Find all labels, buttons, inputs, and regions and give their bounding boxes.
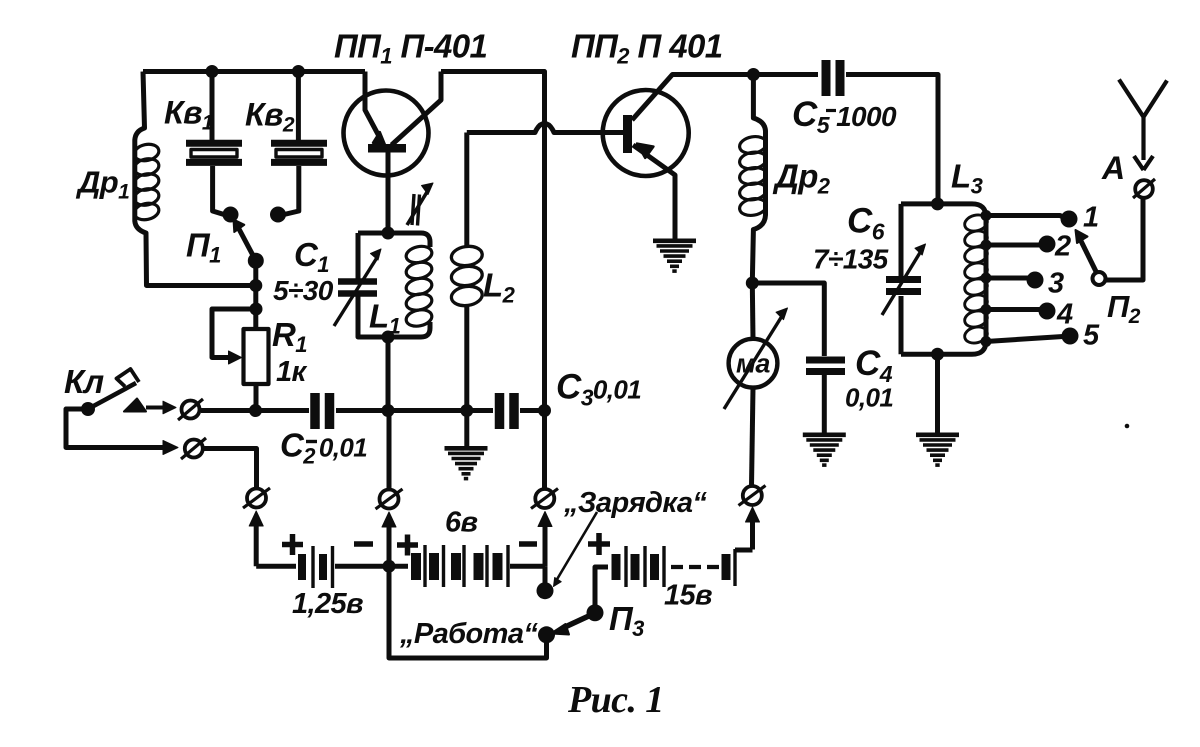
wire Kv2 bottom lead [284,166,299,215]
wire top-right bus [441,72,545,411]
battery 1.25v wire left [256,564,296,569]
capacitor C4 plates [806,357,845,364]
node L3 tap3 [981,273,992,284]
battery 1.25v wire right [335,564,389,569]
upper arrow to jack [146,406,165,410]
svg-text:2: 2 [1054,231,1071,263]
node P2 contact 1 [1061,211,1078,228]
label C5 macron dash [826,109,836,112]
node P1 contact Kv1 [223,207,239,223]
ground under C4 [803,432,846,437]
node C5 tank junction [931,197,944,210]
lower jack terminal [185,440,203,458]
node L3 tap5 [981,336,992,347]
svg-text:Др1: Др1 [75,165,129,204]
terminal o2 [380,490,399,509]
arrow up to o3 [543,520,548,567]
L3 tap 2 wire [986,243,1040,248]
svg-text:С1: С1 [294,236,329,277]
svg-text:Др2: Др2 [772,158,831,199]
node P1 pivot [248,253,264,269]
tank L3 outline top [901,204,986,217]
node tank top junction [382,227,395,240]
svg-text:3: 3 [1048,268,1064,300]
L1 core trimmer symbol [412,194,420,226]
wire o2 up to bus [387,411,392,490]
svg-text:ма: ма [736,349,770,379]
tank L3 outline bottom [901,341,986,354]
svg-text:С20,01: С20,01 [280,427,367,469]
battery 1.25v plus sign [282,534,303,555]
terminal o4 [743,486,762,505]
capacitor C6 plates [886,276,921,283]
svg-text:5÷30: 5÷30 [273,275,334,306]
node tank bottom junction [382,331,395,344]
arrow into lower jack [163,441,178,455]
battery 6v wire right [510,564,545,569]
node P2 contact 5 [1062,328,1079,345]
transistor PP1 circle [344,91,429,176]
PP2 emitter lead [633,145,675,239]
L3 tap 1 wire [986,216,1065,219]
arrow up to o4 [750,515,755,550]
node P2 contact 4 [1039,303,1056,320]
resistor R1 body [244,329,269,384]
arrow up to o2 [387,520,392,566]
battery 6v plates [411,553,421,580]
tank L3 left side [899,204,904,354]
key Kl lower pole wire [66,409,168,448]
crystal Kv2 [271,140,327,147]
svg-text:1,25в: 1,25в [292,588,363,620]
bus between C2 and C3 [336,408,493,413]
svg-text:15в: 15в [664,580,712,612]
svg-text:6в: 6в [445,507,478,539]
inductor Dr1 coil [133,142,161,163]
antenna terminal circle [1135,180,1153,198]
PP2 base bar [623,115,632,153]
node R1 bus junction [249,404,262,417]
arrow up to o1 [254,519,259,566]
PP1 base bar [368,144,406,153]
svg-text:7÷135: 7÷135 [813,244,889,275]
node work contact [538,626,555,643]
svg-text:Кв1: Кв1 [164,95,213,135]
battery 15v plus sign [588,533,610,555]
wire PP2 base line with hop [467,124,623,133]
meter mA circle [729,339,778,388]
tank L1 outline [358,233,430,247]
wire o3 shaft to charge contact [543,566,548,585]
svg-text:Кл: Кл [64,363,104,400]
switch P3 arm [565,615,592,628]
node tank bus junction [382,404,395,417]
svg-text:С4: С4 [855,344,893,387]
capacitor C2 plates [310,393,320,429]
choke Dr2 top lead [752,75,765,284]
C6 variable arrow [882,251,921,315]
svg-text:Кв2: Кв2 [245,97,295,137]
ground under bus [445,446,488,451]
inductor L1 coil [405,244,434,265]
svg-text:П2: П2 [1107,289,1141,328]
svg-text:П3: П3 [609,600,644,641]
transistor PP2 circle [603,90,689,176]
wire Kv1 top lead [210,72,215,141]
wire Kv1 bottom lead [213,166,224,215]
svg-text:L3: L3 [951,158,983,199]
antenna symbol [1119,80,1167,161]
PP2 emitter arrowhead [637,144,654,159]
node P2 contact 3 [1027,272,1044,289]
L3 tap 5 wire [986,337,1063,342]
upper jack terminal [182,401,200,419]
node P2 contact 2 [1039,236,1056,253]
speck artifact [1125,424,1130,429]
wire lower jack to terminal 1 [204,449,257,490]
wire L2 top from base line [464,133,469,247]
terminal o3 [535,489,554,508]
svg-text:1к: 1к [276,356,308,388]
inductor L2 coil [450,244,483,267]
node Kv2 top junction [292,65,305,78]
crystal Kv1 [186,140,242,147]
battery 15v dashed gap [671,565,719,569]
battery 6v plus sign [397,535,418,556]
ground stem below bus [464,411,469,447]
PP1 collector lead top-right [392,72,442,146]
main bus wire segments [201,408,309,413]
node L3 tap4 [981,304,992,315]
PP1 emitter lead top-left [365,72,381,141]
switch P2 pivot circle [1093,272,1106,285]
battery 15v plates [612,554,621,580]
terminal o1 [247,489,266,508]
svg-text:5: 5 [1083,320,1100,352]
L3 tap 3 wire [986,276,1028,281]
switch P1 arm [239,229,256,261]
bus C3 to right vertical [520,408,545,413]
capacitor C1 plates [338,278,377,285]
svg-text:0,01: 0,01 [845,383,893,413]
pointer line to charge label [556,512,597,581]
svg-text:4: 4 [1056,299,1073,331]
battery 1.25v minus sign [354,541,373,547]
wire work contact to bottom loop [389,566,547,658]
L3 tap 4 wire [986,307,1040,312]
svg-text:„Зарядка“: „Зарядка“ [563,487,707,519]
battery 6v minus sign [519,541,537,547]
key Kl knob [117,369,140,387]
svg-text:ПП2 П 401: ПП2 П 401 [571,28,722,69]
ground under L3 tank [916,432,959,437]
node L3 tank bottom junction [931,348,944,361]
svg-text:С5 1000: С5 1000 [792,95,897,138]
PP1 emitter vertical to tank [386,153,391,234]
svg-text:1: 1 [1083,202,1099,234]
label C2 macron dash [306,440,317,443]
capacitor C3 plates [495,393,505,429]
meter arrow [724,316,782,409]
wire Dr2 to meter [750,283,756,339]
node P1 contact Kv2 [270,207,286,223]
svg-text:„Работа“: „Работа“ [399,618,538,650]
inductor L3 coil [963,213,989,234]
wire o3 up to bus [542,411,547,489]
wire top-left bus [143,69,365,74]
wire C4 to ground [822,375,827,433]
svg-text:R1: R1 [272,316,307,357]
node PP2 collector junction [747,68,760,81]
wire tank L3 to ground [935,354,940,433]
wire P1 pivot down to bus [253,261,258,329]
wire L2 bottom to bus [464,306,469,411]
PP2 collector lead [632,75,753,121]
wire R1 wiper loop [212,309,256,358]
wire P2 to antenna terminal [1106,198,1144,280]
C1 variable arrow [334,256,378,326]
svg-text:А: А [1101,150,1125,186]
upper plug triangle [124,399,146,412]
wire left loop left side [135,72,256,286]
switch P2 arm [1081,241,1096,272]
L3 coil spine [984,217,989,341]
node battery junction center [383,560,396,573]
wire Kv2 top lead [296,72,301,141]
svg-text:С30,01: С30,01 [556,368,641,411]
wire C5 right with corner down [846,75,938,204]
node wiper tap junction [250,303,263,316]
svg-text:С6: С6 [847,202,885,245]
svg-text:L2: L2 [483,267,516,308]
battery 1.25v plates [298,554,306,580]
battery 6v wire left [389,564,408,569]
PP1 emitter arrowhead [373,132,386,146]
svg-text:L1: L1 [369,298,401,339]
wire R1 bottom to bus [254,384,259,411]
R1 wiper arrowhead [229,351,242,364]
choke Dr2 coil [738,135,767,156]
wire meter to terminal [752,388,754,486]
key Kl lever [88,383,136,409]
wire tank bottom to bus [386,337,391,411]
wire meter branch to C4 [752,283,824,356]
svg-text:П1: П1 [186,227,221,268]
battery 15v last cell [722,554,731,580]
wire C5 left [753,72,818,77]
wire 15v to o4 arrow [735,548,753,553]
node loop bottom junction [249,279,262,292]
capacitor C5 plates [822,60,831,96]
node Kv1 top junction [206,65,219,78]
node C3 bus junction [538,404,551,417]
node charge contact [537,582,554,599]
svg-text:ПП1 П-401: ПП1 П-401 [334,28,487,69]
ground under PP2 [653,239,696,244]
battery 15v plus corner [595,567,608,609]
node Dr2 meter junction [746,277,759,290]
node Kl pivot [81,402,95,416]
node L2 bus junction [460,404,473,417]
node P3 pivot [587,604,604,621]
node L3 tap2 [981,240,992,251]
svg-text:Рис. 1: Рис. 1 [567,679,664,721]
node L3 tap1 [981,210,992,221]
